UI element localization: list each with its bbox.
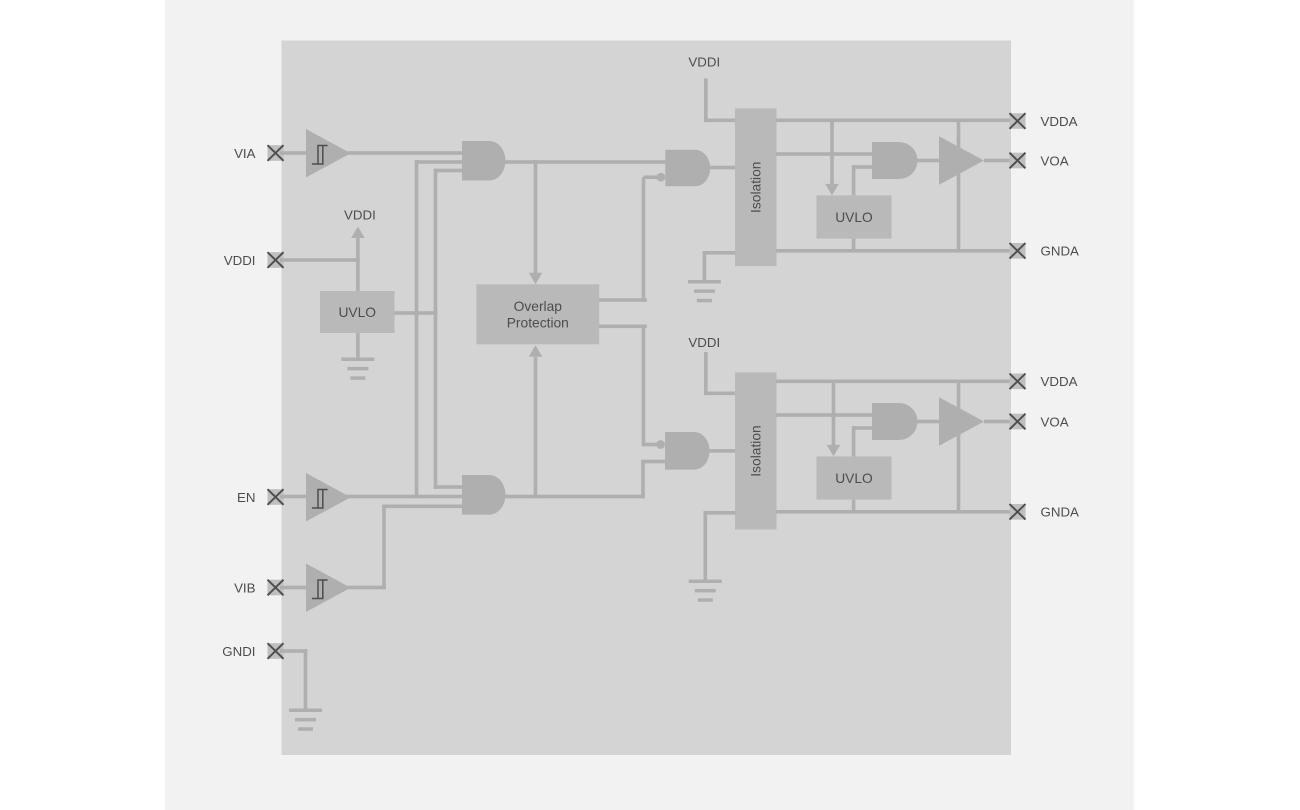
pin EN: [237, 489, 283, 505]
svg-text:VDDI: VDDI: [224, 253, 256, 268]
wire buffer A power taps: [957, 119, 961, 251]
wire UVLO U2 output to enable rail: [395, 311, 438, 315]
wire VDDA to UVLO B (arrow down): [827, 380, 841, 457]
svg-text:VDDI: VDDI: [688, 335, 720, 350]
AND gate B3 (output stage channel B): [872, 403, 918, 440]
wire AND gate A3 to output buffer: [916, 159, 940, 163]
ground GNDA symbol channel A: [688, 280, 721, 302]
buffer U4 (VIB Schmitt input buffer): [306, 564, 351, 613]
wire VDDI pin to UVLO rail: [280, 258, 360, 262]
ground GNDA symbol channel B: [689, 580, 722, 602]
pin VIB: [234, 580, 283, 596]
ground GNDI symbol: [289, 709, 322, 731]
wire AND gate B output to NAND B2: [505, 460, 666, 499]
svg-text:EN: EN: [237, 490, 255, 505]
svg-text:Protection: Protection: [507, 315, 569, 330]
wire VDDA rail channel B: [776, 380, 1011, 384]
wire AND gate B3 to output buffer: [916, 420, 940, 424]
net label VDDI (channel A): [688, 54, 720, 69]
output buffer channel B: [939, 397, 984, 446]
wire VIB to buffer: [280, 586, 386, 590]
svg-text:VOA: VOA: [1041, 153, 1069, 168]
node VDDI rail (arrow up) input side: [351, 227, 365, 292]
wire VDDA to UVLO A (arrow down): [825, 119, 839, 196]
svg-text:Isolation: Isolation: [749, 162, 764, 213]
buffer U1 (VIA Schmitt input buffer): [306, 129, 351, 178]
net label VDDI (input side): [344, 207, 376, 222]
svg-text:VIA: VIA: [234, 146, 256, 161]
svg-text:UVLO: UVLO: [835, 471, 873, 486]
wire VIA to AND gate A top input: [280, 151, 462, 155]
IC body (main block): [282, 41, 1012, 756]
wire buffer to VOA pin channel B: [984, 420, 1011, 424]
pin VOA (channel B): [1010, 414, 1069, 430]
wire VIB up to AND gate B bottom input: [382, 505, 462, 590]
pin GNDA (channel A): [1010, 243, 1080, 259]
NAND gate A2 (channel A, inverted lower input): [665, 150, 710, 187]
output buffer channel A: [939, 136, 984, 185]
UVLO block channel A: [817, 195, 892, 238]
light gray panel background: [165, 0, 1134, 810]
UVLO block channel B: [817, 456, 892, 499]
AND gate A (channel A input AND): [462, 141, 505, 181]
inverter bubble on NAND B2 upper input: [656, 440, 665, 449]
wire branch to Overlap Protection top (arrow down): [529, 160, 543, 284]
svg-text:GNDI: GNDI: [222, 644, 255, 659]
wire GNDI to ground: [280, 649, 307, 708]
wire GNDA rail channel B: [776, 510, 1011, 514]
wire Isolation A to ground: [703, 251, 736, 280]
wire VDDI to Isolation A: [704, 78, 735, 122]
wire branch to Overlap Protection bottom (arrow up): [529, 345, 543, 498]
wire buffer to VOA pin: [984, 159, 1011, 163]
wire UVLO A to AND gate A3 lower input: [852, 165, 872, 195]
wire GNDA rail channel A: [776, 249, 1011, 253]
net label VDDI (channel B): [688, 335, 720, 350]
wire Isolation B output to AND gate B3: [776, 413, 872, 417]
ground GNDI symbol under UVLO U2: [341, 358, 374, 380]
svg-text:Overlap: Overlap: [514, 299, 563, 314]
wire EN to AND gate B middle input: [280, 495, 462, 499]
wire Overlap Protection output A to NAND A2 inverted input: [599, 175, 658, 301]
wire buffer B power taps: [957, 380, 961, 512]
pin VDDA (channel B): [1010, 374, 1078, 390]
pin VOA (channel A): [1010, 153, 1069, 169]
AND gate A3 (output stage channel A): [872, 142, 918, 179]
UVLO U2 (input side): [320, 291, 395, 333]
wire UVLO rail vertical to AND gates: [434, 169, 462, 489]
svg-text:GNDA: GNDA: [1041, 505, 1080, 520]
wire NAND B2 output to Isolation B: [708, 449, 736, 453]
svg-text:VDDI: VDDI: [344, 207, 376, 222]
wire AND gate A output to NAND A2: [505, 160, 666, 164]
NAND gate B2 (channel B, inverted upper input): [665, 432, 710, 470]
svg-text:VDDI: VDDI: [688, 54, 720, 69]
svg-text:UVLO: UVLO: [835, 210, 873, 225]
wire Isolation B to ground: [704, 511, 736, 580]
Isolation block B: [735, 373, 777, 530]
Overlap Protection block: [476, 284, 599, 344]
wire NAND A2 output to Isolation A: [710, 166, 736, 170]
pin VDDA (channel A): [1010, 113, 1078, 129]
AND gate B (channel B input AND): [462, 475, 505, 515]
Isolation block A: [735, 109, 777, 267]
inverter bubble on NAND A2 lower input: [657, 173, 666, 182]
wire EN branch up to AND gate A middle input: [415, 160, 462, 498]
svg-text:VDDA: VDDA: [1041, 374, 1078, 389]
pin GNDA (channel B): [1010, 504, 1080, 520]
wire VDDA rail channel A: [776, 119, 1011, 123]
wire Isolation A output to AND gate A3: [776, 152, 872, 156]
wire UVLO B to AND gate B3 lower input: [852, 426, 872, 456]
svg-text:VIB: VIB: [234, 580, 256, 595]
pin VDDI: [224, 252, 284, 268]
svg-text:UVLO: UVLO: [338, 305, 376, 320]
svg-text:Isolation: Isolation: [749, 425, 764, 476]
svg-text:VOA: VOA: [1041, 414, 1069, 429]
wire UVLO B to GNDA rail: [852, 500, 856, 512]
wire Overlap Protection output B to NAND B2 inverted input: [599, 325, 658, 447]
svg-text:VDDA: VDDA: [1041, 114, 1078, 129]
pin VIA: [234, 145, 283, 161]
wire VDDI to Isolation B: [704, 352, 735, 395]
wire UVLO A to GNDA rail: [852, 239, 856, 251]
pin GNDI: [222, 643, 283, 659]
wire UVLO U2 to ground: [356, 333, 360, 358]
svg-text:GNDA: GNDA: [1041, 244, 1080, 259]
buffer U3 (EN Schmitt input buffer): [306, 473, 351, 522]
